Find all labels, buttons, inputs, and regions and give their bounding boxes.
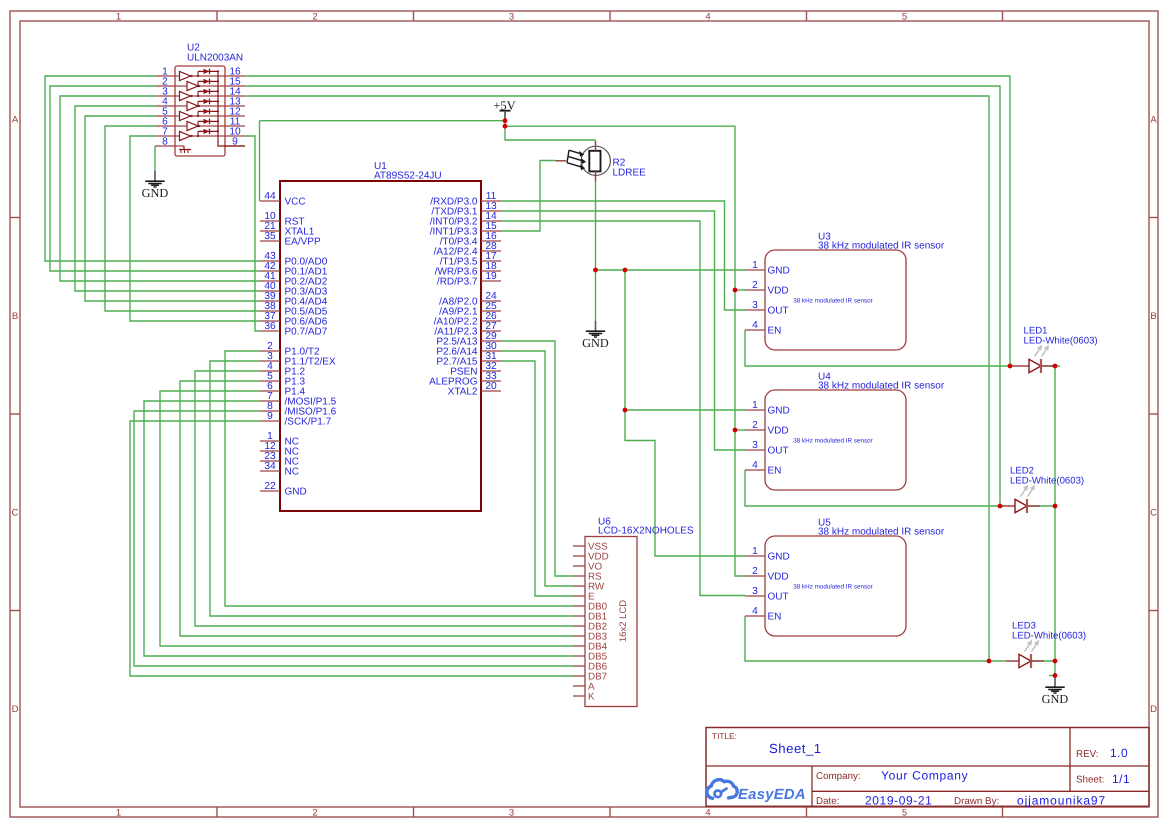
svg-text:VDD: VDD [768,572,789,583]
svg-text:2019-09-21: 2019-09-21 [865,794,932,808]
svg-text:1: 1 [752,260,758,271]
svg-text:GND: GND [768,406,790,417]
svg-text:OUT: OUT [768,592,789,603]
svg-text:16x2 LCD: 16x2 LCD [618,600,629,642]
svg-text:TITLE:: TITLE: [712,731,737,741]
svg-text:5: 5 [902,808,907,819]
svg-text:LCD-16X2NOHOLES: LCD-16X2NOHOLES [598,526,694,537]
svg-text:35: 35 [264,231,276,242]
svg-text:GND: GND [768,552,790,563]
svg-text:EN: EN [768,466,782,477]
svg-text:2: 2 [752,280,758,291]
svg-text:LED-White(0603): LED-White(0603) [1012,631,1086,642]
svg-text:GND: GND [1042,692,1069,706]
svg-text:LDREE: LDREE [613,168,647,179]
svg-text:2: 2 [312,12,317,23]
svg-text:LED-White(0603): LED-White(0603) [1024,336,1098,347]
svg-text:AT89S52-24JU: AT89S52-24JU [374,171,442,182]
svg-text:GND: GND [768,266,790,277]
svg-text:C: C [1150,508,1157,519]
svg-text:P0.7/AD7: P0.7/AD7 [285,327,328,338]
svg-text:1.0: 1.0 [1110,746,1128,760]
svg-text:1/1: 1/1 [1112,772,1130,786]
svg-text:1: 1 [752,546,758,557]
svg-text:8: 8 [162,137,168,148]
svg-text:Drawn By:: Drawn By: [954,796,999,807]
svg-text:GND: GND [582,336,609,350]
svg-text:A: A [1150,115,1157,126]
svg-text:VDD: VDD [768,426,789,437]
svg-text:1: 1 [116,12,121,23]
svg-text:REV:: REV: [1076,749,1099,760]
svg-text:5: 5 [902,12,907,23]
svg-text:EA/VPP: EA/VPP [285,237,321,248]
svg-text:OUT: OUT [768,306,789,317]
svg-text:22: 22 [264,481,276,492]
svg-text:EN: EN [768,326,782,337]
svg-text:38 kHz modulated IR sensor: 38 kHz modulated IR sensor [793,438,872,445]
svg-text:2: 2 [752,566,758,577]
svg-text:B: B [12,311,18,322]
svg-text:Company:: Company: [816,771,861,782]
svg-text:/RD/P3.7: /RD/P3.7 [437,277,478,288]
svg-text:38 kHz modulated IR sensor: 38 kHz modulated IR sensor [793,298,872,305]
svg-text:3: 3 [509,808,514,819]
svg-text:GND: GND [142,186,169,200]
svg-text:1: 1 [752,400,758,411]
svg-text:34: 34 [264,461,276,472]
svg-text:OUT: OUT [768,446,789,457]
svg-text:4: 4 [752,460,758,471]
svg-text:C: C [12,508,19,519]
svg-text:3: 3 [752,440,758,451]
svg-text:3: 3 [752,300,758,311]
svg-text:D: D [1150,704,1157,715]
svg-text:4: 4 [705,12,710,23]
svg-text:LED-White(0603): LED-White(0603) [1010,476,1084,487]
svg-text:2: 2 [752,420,758,431]
svg-text:38 kHz modulated IR sensor: 38 kHz modulated IR sensor [793,584,872,591]
svg-text:K: K [588,692,595,703]
svg-text:20: 20 [485,381,497,392]
svg-text:19: 19 [485,271,497,282]
svg-text:ojjamounika97: ojjamounika97 [1017,794,1106,808]
svg-text:A: A [12,115,19,126]
svg-text:NC: NC [285,467,299,478]
svg-text:EasyEDA: EasyEDA [738,787,806,803]
svg-text:Date:: Date: [816,796,839,807]
svg-text:VCC: VCC [285,197,306,208]
svg-text:1: 1 [116,808,121,819]
svg-text:D: D [12,704,19,715]
svg-text:Your Company: Your Company [881,769,968,783]
svg-text:4: 4 [705,808,710,819]
svg-text:4: 4 [752,606,758,617]
svg-text:GND: GND [285,487,307,498]
svg-text:9: 9 [267,411,273,422]
svg-text:EN: EN [768,612,782,623]
svg-text:3: 3 [752,586,758,597]
svg-text:ULN2003AN: ULN2003AN [187,53,243,64]
svg-text:XTAL2: XTAL2 [448,387,478,398]
svg-text:Sheet:: Sheet: [1076,775,1104,786]
svg-text:2: 2 [312,808,317,819]
svg-text:VDD: VDD [768,286,789,297]
svg-text:Sheet_1: Sheet_1 [769,741,822,756]
svg-text:/SCK/P1.7: /SCK/P1.7 [285,417,332,428]
svg-text:4: 4 [752,320,758,331]
svg-text:B: B [1150,311,1156,322]
svg-text:3: 3 [509,12,514,23]
svg-text:36: 36 [264,321,276,332]
svg-text:44: 44 [264,191,276,202]
